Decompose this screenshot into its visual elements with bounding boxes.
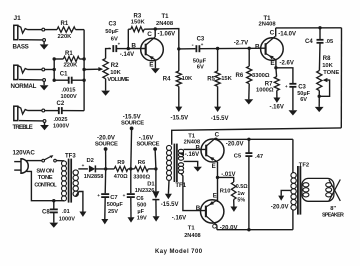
wire C6 to supply arrow	[128, 197, 135, 223]
svg-text:R9: R9	[117, 160, 125, 166]
svg-text:0.5Ω: 0.5Ω	[236, 184, 248, 190]
label -2.7V	[234, 40, 248, 46]
wire upper emitter down	[216, 161, 218, 202]
svg-text:8": 8"	[330, 206, 336, 212]
wire NORMAL sleeve	[19, 79, 43, 81]
wire R5 to supply arrow	[214, 86, 221, 112]
svg-text:C2: C2	[57, 101, 65, 107]
output collector rail lower	[217, 229, 293, 231]
svg-text:Kay Model 700: Kay Model 700	[155, 249, 203, 255]
wire rail to TF2 primary	[292, 139, 294, 172]
svg-text:220K: 220K	[58, 34, 73, 40]
wire R4 to supply arrow	[175, 86, 182, 112]
node NORMAL sleeve	[43, 79, 46, 82]
wire R6 to ground	[248, 84, 250, 100]
junction dot (R4 / C3 coupling)	[177, 47, 180, 50]
wire sleeve node down	[43, 41, 45, 44]
wire D1 to supply arrow	[153, 200, 160, 222]
svg-text:50µF: 50µF	[105, 29, 119, 35]
label -15.5V (TF1)	[161, 202, 179, 208]
svg-text:.0015: .0015	[62, 87, 76, 93]
wire NORMAL tip to node	[28, 69, 42, 71]
wire TF1 secondary bottom to lower base	[181, 174, 206, 211]
wire C7 to supply arrow	[101, 197, 108, 224]
label -2.6V	[280, 61, 294, 67]
supply arrow (TF3 secondary)	[79, 212, 86, 217]
svg-text:6V: 6V	[197, 65, 204, 71]
svg-text:-20.0V: -20.0V	[226, 141, 244, 147]
ground (R6)	[244, 99, 253, 104]
svg-text:T1: T1	[162, 14, 170, 20]
svg-text:C5: C5	[234, 154, 242, 160]
wire right bus vertical	[340, 28, 342, 128]
svg-text:C: C	[270, 30, 275, 37]
wire R8 to ground	[318, 91, 321, 107]
svg-text:B: B	[196, 205, 201, 212]
svg-text:µF: µF	[137, 209, 144, 215]
svg-text:+: +	[97, 193, 100, 198]
jack J1 (BASS input)	[13, 15, 29, 50]
svg-text:1000V: 1000V	[59, 217, 75, 223]
junction dot (R9/R6)	[129, 167, 132, 170]
wire C3 to base T1 second	[199, 47, 265, 50]
svg-text:+: +	[123, 193, 126, 198]
wire collector to R4 top	[155, 29, 179, 49]
junction dot (C8)	[52, 199, 55, 202]
svg-text:.05: .05	[325, 39, 334, 45]
svg-text:C4: C4	[305, 39, 313, 45]
svg-text:-2.6V: -2.6V	[280, 61, 294, 67]
svg-text:+: +	[118, 42, 121, 47]
wire node to C2	[45, 110, 59, 112]
transistor T1 2N408 (first stage)	[131, 14, 173, 68]
junction dot (R3 left / base)	[127, 47, 130, 50]
ground (R8)	[315, 107, 324, 112]
resistor R1 (normal) 220K	[63, 51, 79, 69]
jack TREBLE input	[13, 106, 33, 131]
resistor R10 0.5ohm 1w 5%	[220, 182, 248, 203]
svg-text:-2.7V: -2.7V	[234, 40, 248, 46]
svg-text:D2: D2	[87, 158, 94, 164]
resistor R6 3300ohm (bias)	[236, 48, 270, 83]
label -14.0V	[278, 32, 296, 38]
wire input bus vertical	[83, 30, 85, 111]
wire lower emitter up	[216, 200, 218, 201]
label -15.5V (R5)	[211, 116, 229, 122]
wire node to R1	[45, 29, 57, 31]
wire TF3 secondary to D2	[78, 163, 88, 169]
svg-text:10K: 10K	[182, 76, 193, 82]
wire junction up/down	[53, 59, 55, 80]
svg-text:B: B	[196, 145, 201, 152]
switch SW ON TONE CONTROL	[34, 155, 57, 188]
junction dots on bus	[82, 57, 85, 82]
svg-text:1N2326: 1N2326	[135, 188, 155, 194]
svg-text:C7: C7	[110, 195, 117, 201]
wire TF3 secondary bottom	[76, 192, 83, 212]
transistor T1 2N408 (lower output)	[184, 193, 224, 239]
wire TREBLE tip to node	[28, 110, 42, 112]
svg-text:-15.5V: -15.5V	[211, 116, 229, 122]
svg-text:B: B	[131, 42, 136, 49]
ground (NORMAL jack)	[40, 85, 49, 90]
svg-text:SOURCE: SOURCE	[95, 141, 118, 147]
svg-text:E: E	[213, 193, 217, 200]
AC plug	[14, 159, 28, 174]
junction dot (C5 top)	[247, 138, 250, 141]
svg-text:TF1: TF1	[175, 183, 186, 189]
svg-text:25V: 25V	[108, 209, 118, 215]
svg-text:NORMAL: NORMAL	[11, 83, 37, 90]
potentiometer R2 10K VOLUME	[103, 59, 129, 83]
label -.01V	[221, 172, 235, 178]
capacitor C2 .0025 1000V	[53, 101, 84, 130]
output collector rail upper	[218, 138, 293, 140]
ground (C3 bypass)	[289, 110, 298, 115]
svg-text:R6: R6	[138, 160, 146, 166]
junction dot (emitters)	[216, 176, 219, 179]
wire C4 to R8	[318, 43, 321, 71]
junction dot (R5)	[216, 47, 219, 50]
junction dot (-.16V rail)	[154, 167, 157, 170]
label -.16V (lower base)	[172, 215, 186, 221]
svg-text:2N408: 2N408	[259, 21, 277, 27]
svg-text:C8: C8	[42, 209, 50, 215]
transformer TF2	[291, 162, 309, 214]
wire plug bottom to TF3 primary	[27, 171, 65, 200]
label -15.5V (R4)	[171, 116, 189, 122]
svg-text:10K: 10K	[322, 63, 333, 69]
ground (TF1 tap)	[194, 167, 202, 172]
wire node to junction	[45, 69, 55, 71]
svg-text:.0025: .0025	[54, 117, 68, 123]
wire R7 to supply arrow	[273, 91, 280, 103]
svg-text:120VAC: 120VAC	[13, 149, 36, 156]
svg-text:-20.0V: -20.0V	[220, 225, 238, 231]
svg-text:150K: 150K	[131, 20, 146, 26]
junction dot (C4)	[318, 26, 321, 29]
wire emitter stub to R10	[218, 177, 234, 182]
wire TF1 primary bottom to supply	[165, 181, 172, 200]
wire C8 to ground	[53, 212, 55, 222]
speaker 8in (secondary + voice coil)	[302, 178, 344, 218]
junction dot (C5 bottom)	[247, 228, 250, 231]
wire C3 bypass to ground	[292, 87, 294, 111]
svg-text:1000V: 1000V	[61, 94, 77, 100]
ground (R2)	[101, 91, 110, 96]
wire T1 emitter down	[154, 60, 156, 68]
wire bus to R2 wiper	[84, 67, 103, 71]
svg-text:CONTROL: CONTROL	[34, 182, 57, 188]
junction dots R1/C1 left	[53, 57, 56, 82]
wire sleeve node down	[44, 122, 46, 125]
wire R3 left vertical	[127, 29, 129, 48]
svg-text:1000Ω: 1000Ω	[256, 88, 274, 94]
transistor T1 2N408 (second stage)	[255, 16, 283, 67]
wire R2 top to C3	[106, 49, 111, 59]
ground (BASS jack)	[40, 44, 49, 49]
svg-text:R1: R1	[61, 21, 69, 27]
wire R1 to bus	[79, 58, 84, 60]
svg-text:TREBLE: TREBLE	[13, 125, 33, 131]
svg-text:3300Ω: 3300Ω	[133, 174, 150, 180]
svg-text:BASS: BASS	[13, 43, 29, 50]
svg-text:-14.0V: -14.0V	[278, 32, 296, 38]
svg-text:19V: 19V	[137, 216, 147, 222]
wire R1 to bus	[76, 29, 85, 31]
junction dot (T1 collector)	[154, 27, 157, 30]
label -.16V (TF1 tap)	[179, 152, 199, 158]
jack NORMAL input	[11, 65, 37, 90]
transformer TF1	[167, 144, 187, 190]
svg-text:TONE: TONE	[38, 175, 53, 181]
junction dot (emitter)	[274, 66, 277, 69]
wire plug to switch	[27, 160, 42, 162]
svg-text:2N408: 2N408	[184, 233, 200, 239]
capacitor C5 .47	[234, 139, 263, 229]
label -1.06V	[158, 32, 176, 38]
svg-text:B: B	[255, 43, 260, 50]
resistor R6 3300ohm (supply)	[128, 160, 151, 181]
svg-text:R4: R4	[163, 77, 171, 83]
wire emitter to C3 bypass	[276, 68, 293, 83]
capacitor C3 50uF 6V (input coupling)	[105, 22, 128, 53]
wire TF1 secondary top to base	[184, 148, 207, 150]
svg-text:C1: C1	[60, 71, 68, 77]
svg-text:1000V: 1000V	[53, 124, 69, 130]
svg-text:.47: .47	[255, 154, 263, 160]
svg-text:E: E	[149, 61, 154, 68]
svg-text:-1.06V: -1.06V	[158, 32, 176, 38]
svg-text:SOURCE: SOURCE	[136, 141, 159, 147]
svg-text:-15.5V: -15.5V	[161, 202, 179, 208]
svg-text:R10: R10	[220, 188, 231, 194]
wire upper collector to rail	[216, 138, 218, 140]
svg-text:220K: 220K	[64, 62, 79, 68]
svg-text:1w: 1w	[237, 191, 245, 197]
svg-text:R7: R7	[265, 81, 273, 87]
svg-text:C3: C3	[109, 22, 117, 28]
TF2 center tap to -20.0V	[271, 190, 291, 210]
capacitor C7 500uF 25V	[97, 169, 123, 215]
wire T1b collector up	[275, 28, 277, 37]
svg-text:D1: D1	[147, 182, 155, 188]
svg-text:10K: 10K	[110, 70, 121, 76]
svg-text:6V: 6V	[300, 97, 307, 103]
title Kay Model 700	[155, 249, 203, 255]
svg-text:470Ω: 470Ω	[114, 174, 128, 180]
wire to C3 coupling	[179, 48, 196, 50]
svg-text:R6: R6	[236, 73, 244, 79]
svg-text:500: 500	[137, 202, 146, 208]
svg-text:C: C	[215, 132, 220, 139]
wire TF1 center tap to ground	[184, 161, 198, 166]
svg-text:15K: 15K	[221, 76, 232, 82]
wire switch to TF3	[56, 160, 64, 162]
diode D1 1N2326	[135, 169, 160, 200]
wire collector to right bus	[276, 27, 342, 29]
svg-text:T1: T1	[188, 226, 196, 232]
svg-text:500µF: 500µF	[107, 202, 124, 208]
resistor R9 470ohm	[114, 160, 128, 180]
svg-text:R5: R5	[207, 77, 215, 83]
resistor R3 150K	[128, 14, 155, 32]
svg-text:SW ON: SW ON	[36, 168, 53, 174]
label -20.0V (lower)	[220, 225, 238, 231]
svg-text:-20.0V: -20.0V	[271, 205, 289, 211]
svg-text:SPEAKER: SPEAKER	[322, 213, 344, 219]
svg-text:-.16V: -.16V	[139, 134, 155, 141]
wire T1b emitter down	[275, 60, 278, 77]
transformer TF3	[62, 154, 79, 203]
svg-text:-.14V: -.14V	[120, 52, 134, 58]
ground (TREBLE jack)	[40, 125, 49, 130]
svg-text:+: +	[82, 163, 85, 168]
potentiometer R8 10K TONE	[317, 56, 340, 96]
resistor R1 (bass) 220K	[57, 21, 76, 40]
wire C3 to base junction	[128, 48, 145, 50]
svg-text:C: C	[147, 31, 152, 38]
svg-text:-.16V: -.16V	[185, 152, 199, 158]
ground (T1 emitter)	[151, 68, 160, 73]
resistor R5 15K	[207, 49, 232, 87]
node BASS tip	[42, 28, 45, 31]
label 120VAC	[13, 149, 36, 156]
svg-text:R8: R8	[323, 56, 331, 62]
wire T1 collector up	[154, 29, 156, 37]
svg-text:-.16V: -.16V	[270, 104, 284, 110]
resistor R4 10K	[163, 49, 193, 87]
svg-text:VOLUME: VOLUME	[107, 77, 129, 83]
label -.14V	[120, 52, 134, 58]
node BASS sleeve	[43, 39, 46, 42]
wire BASS tip to node	[28, 29, 43, 31]
label -20.0V (upper)	[226, 141, 244, 147]
junction dot (R6)	[248, 47, 251, 50]
svg-text:1N2858: 1N2858	[84, 174, 104, 180]
svg-text:-.16V: -.16V	[172, 215, 186, 221]
wire to R1 normal	[54, 58, 63, 60]
svg-text:TONE: TONE	[323, 70, 339, 76]
svg-text:-15.5V: -15.5V	[123, 113, 142, 120]
label -.16V (R7)	[270, 104, 284, 110]
wire R2 bottom to ground	[105, 79, 107, 91]
svg-text:3300Ω: 3300Ω	[252, 73, 270, 79]
wire BASS sleeve	[19, 39, 43, 41]
capacitor C1 .0015 1000V	[54, 71, 84, 99]
wire D2 to -20V node	[95, 168, 114, 170]
svg-text:C6: C6	[136, 196, 144, 202]
svg-text:2N408: 2N408	[156, 21, 174, 27]
svg-text:E: E	[212, 163, 216, 170]
wire sleeve node down	[43, 81, 45, 85]
svg-text:5%: 5%	[237, 197, 245, 203]
svg-text:SOURCE: SOURCE	[121, 121, 144, 127]
capacitor C4 .05	[305, 28, 334, 45]
capacitor C3 50uF 6V (interstage coupling)	[192, 37, 207, 71]
svg-text:-: -	[108, 46, 110, 52]
transistor T1 2N408 (upper output)	[184, 132, 224, 170]
svg-text:-20.0V: -20.0V	[97, 134, 116, 141]
junction dot (-20V rail)	[104, 167, 107, 170]
svg-text:C3: C3	[298, 84, 306, 90]
svg-text:E: E	[270, 60, 275, 67]
svg-text:-: -	[192, 43, 194, 49]
wire TF2 primary bottom	[292, 210, 294, 230]
terminal -15.5V SOURCE	[121, 113, 144, 168]
capacitor C8 .01 1000V	[42, 201, 75, 223]
svg-text:R2: R2	[111, 63, 119, 69]
wire R10 to supply arrow	[230, 200, 237, 212]
svg-text:+: +	[285, 84, 288, 89]
wire lower collector down	[215, 224, 217, 230]
wire TF1 feed line	[172, 128, 342, 145]
node TREBLE tip	[42, 109, 45, 112]
diode D2 1N2858	[84, 158, 104, 180]
wire R6 to -.16V node	[148, 168, 156, 170]
resistor R7 1000ohm	[256, 77, 279, 94]
svg-text:-15.5V: -15.5V	[171, 116, 189, 122]
ground (C8)	[49, 223, 58, 228]
node TREBLE sleeve	[43, 120, 46, 123]
capacitor C3 50uF 6V (emitter bypass)	[285, 84, 311, 103]
wire TREBLE sleeve	[19, 120, 43, 122]
junction dot (NORMAL tip)	[53, 68, 56, 71]
svg-text:J1: J1	[14, 15, 22, 22]
capacitor C6 500uF 19V	[123, 169, 147, 222]
node NORMAL tip	[42, 68, 45, 71]
svg-text:.01: .01	[62, 209, 70, 215]
svg-text:+: +	[201, 42, 204, 47]
terminal -.16V SOURCE	[136, 134, 159, 169]
terminal -20.0V SOURCE	[95, 134, 118, 169]
